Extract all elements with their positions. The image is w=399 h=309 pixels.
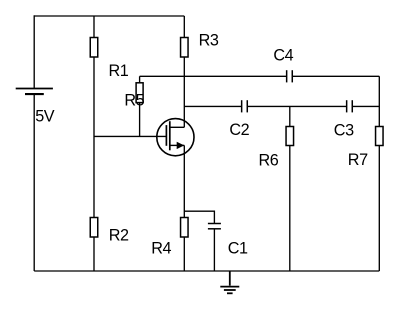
- svg-text:R1: R1: [109, 62, 129, 80]
- svg-text:C3: C3: [334, 122, 354, 140]
- resistor R4: [181, 218, 189, 238]
- wire left rail lower (battery to bottom): [33, 94, 35, 271]
- svg-text:R2: R2: [109, 227, 129, 245]
- svg-text:R5: R5: [124, 92, 144, 110]
- svg-text:C4: C4: [273, 46, 293, 64]
- svg-text:R7: R7: [348, 151, 368, 169]
- wire row2 left (trunk to C2): [184, 105, 241, 107]
- transistor Q1 (MOSFET): [157, 119, 194, 156]
- svg-text:C1: C1: [228, 240, 248, 258]
- wire C1 branch horizontal: [184, 211, 214, 223]
- svg-text:R3: R3: [199, 31, 219, 49]
- wire C1 bottom lead: [213, 229, 215, 271]
- wire row2 right (C3 to right rail): [352, 105, 379, 107]
- svg-text:C2: C2: [229, 121, 249, 139]
- wire right rail: [378, 76, 380, 271]
- wire bottom rail: [34, 270, 379, 272]
- resistor R5: [136, 83, 143, 103]
- capacitor C3: [347, 100, 353, 112]
- wire left rail upper (to battery): [33, 15, 35, 88]
- capacitor C2: [242, 100, 248, 112]
- resistor R2: [90, 218, 98, 238]
- svg-text:R4: R4: [151, 240, 171, 258]
- svg-text:5V: 5V: [35, 107, 55, 125]
- wire row1 left (R5 top to C4): [140, 75, 287, 77]
- capacitor C4: [287, 70, 293, 82]
- wire R1-R2 branch: [93, 16, 95, 271]
- ground: [220, 271, 239, 293]
- wire R5 stem: [139, 76, 141, 136]
- wire R6 branch: [289, 106, 291, 271]
- wire trunk lower (source to R4 to bottom): [183, 145, 185, 271]
- resistor R1: [90, 38, 98, 58]
- capacitor C1: [208, 224, 221, 229]
- wire trunk upper (R3 to drain): [183, 16, 185, 127]
- wire gate: [94, 135, 166, 137]
- resistor R6: [286, 127, 294, 146]
- svg-text:R6: R6: [259, 152, 279, 170]
- wire row1 right (C4 to right rail): [292, 75, 379, 77]
- wire row2 middle (C2 to C3): [247, 105, 346, 107]
- resistor R3: [181, 38, 189, 58]
- battery V1: [16, 89, 53, 95]
- wire top rail: [34, 15, 184, 17]
- resistor R7: [376, 127, 384, 146]
